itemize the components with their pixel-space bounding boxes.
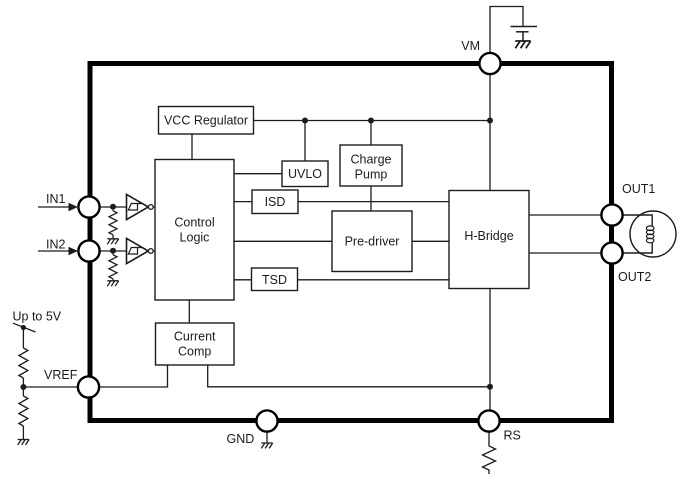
resistor R-VREF1 — [19, 348, 28, 378]
svg-text:RS: RS — [504, 429, 521, 443]
capacitor C-VM — [511, 27, 538, 42]
svg-text:Control: Control — [174, 216, 214, 230]
ground under R-IN2 — [107, 281, 118, 286]
wire bus to UVLO — [304, 121, 306, 162]
svg-text:Current: Current — [174, 330, 216, 344]
GND pin ground stub — [266, 432, 268, 444]
block H-Bridge — [449, 191, 529, 289]
wire IN1 to schmitt — [100, 206, 127, 208]
wire VM to H-Bridge — [489, 74, 491, 191]
svg-text:IN2: IN2 — [46, 238, 66, 252]
wire VCC Regulator to Control Logic — [191, 134, 193, 160]
resistor R-RS — [483, 432, 496, 474]
wire H-Bridge to OUT2 — [529, 252, 602, 254]
wire Charge Pump to Pre-driver — [370, 186, 372, 211]
svg-text:Charge: Charge — [351, 153, 392, 167]
svg-text:Pump: Pump — [355, 168, 388, 182]
schmitt buffer U-IN1 — [127, 194, 154, 219]
wire supply to R1 — [22, 328, 24, 349]
svg-text:VCC Regulator: VCC Regulator — [164, 114, 248, 128]
wire Control Logic to Current Comp — [188, 300, 190, 323]
wire Current Comp to RS node — [208, 365, 490, 387]
IN2 arrowhead — [69, 247, 79, 255]
wire Control Logic to TSD — [234, 279, 252, 281]
VM external wire — [490, 7, 523, 54]
wire ISD to H-Bridge — [298, 201, 449, 203]
node junction on bus at Charge Pump — [368, 118, 374, 124]
svg-text:VREF: VREF — [44, 368, 78, 382]
wire Control Logic to Pre-driver — [234, 240, 332, 242]
svg-text:Comp: Comp — [178, 345, 211, 359]
node IN2 junction — [110, 248, 116, 254]
block TSD — [252, 268, 298, 291]
block ISD — [252, 190, 298, 214]
pin IN1 — [78, 196, 99, 217]
ground of capacitor — [515, 41, 530, 48]
wire R1 to node — [22, 378, 24, 396]
wire IN2 lead — [38, 250, 70, 252]
wire IN2 to schmitt — [100, 250, 127, 252]
VREF divider: supply stroke — [13, 323, 36, 332]
node VREF divider — [20, 384, 26, 390]
wire VREF to Current Comp — [99, 365, 168, 387]
wire node to VREF pin — [23, 386, 78, 388]
wire schmitt1 to Control Logic — [153, 206, 155, 208]
svg-text:ISD: ISD — [265, 195, 286, 209]
ground under R-IN1 — [107, 239, 118, 244]
pin RS — [478, 410, 499, 431]
node junction on bus at UVLO — [302, 118, 308, 124]
pin GND — [256, 410, 277, 431]
wire IN1 lead — [38, 206, 70, 208]
wire H-Bridge to RS — [489, 289, 491, 411]
resistor R-IN1 — [109, 210, 117, 239]
resistor R-IN2 — [109, 254, 117, 281]
wire TSD to H-Bridge — [298, 279, 450, 281]
pin IN2 — [78, 240, 99, 261]
svg-text:OUT1: OUT1 — [622, 182, 655, 196]
block Charge Pump — [340, 145, 402, 186]
svg-text:GND: GND — [227, 432, 255, 446]
block Pre-driver — [332, 211, 412, 272]
node IN1 junction — [110, 204, 116, 210]
svg-text:Pre-driver: Pre-driver — [345, 235, 400, 249]
block UVLO — [282, 161, 328, 187]
svg-text:VM: VM — [461, 39, 480, 53]
svg-text:Up to 5V: Up to 5V — [13, 310, 62, 324]
node junction bus at VM line — [487, 118, 493, 124]
svg-text:Logic: Logic — [180, 231, 210, 245]
pin VREF — [78, 376, 99, 397]
block Control Logic — [155, 160, 234, 301]
svg-text:H-Bridge: H-Bridge — [464, 229, 513, 243]
pin OUT1 — [601, 204, 622, 225]
wire VCC Regulator output bus — [254, 120, 491, 122]
node supply dot — [21, 325, 26, 330]
wire R2 to ground — [22, 426, 24, 440]
wire Pre-driver to H-Bridge — [412, 240, 449, 242]
IN1 arrowhead — [69, 203, 79, 211]
motor M1 — [623, 211, 677, 257]
svg-text:UVLO: UVLO — [288, 167, 322, 181]
resistor R-VREF2 — [19, 396, 28, 426]
pin VM — [479, 53, 500, 74]
wire Control Logic to ISD — [234, 201, 252, 203]
svg-text:TSD: TSD — [262, 273, 287, 287]
pin OUT2 — [601, 242, 622, 263]
wire H-Bridge to OUT1 — [529, 214, 602, 216]
block Current Comp — [156, 323, 235, 365]
block VCC Regulator — [159, 107, 254, 135]
wire Control Logic to UVLO — [234, 173, 282, 175]
svg-text:OUT2: OUT2 — [618, 270, 651, 284]
node junction RS — [487, 384, 493, 390]
IC outline box — [90, 64, 612, 421]
svg-text:IN1: IN1 — [46, 192, 66, 206]
ground under GND pin — [261, 443, 272, 448]
ground under divider — [18, 440, 29, 445]
wire schmitt2 to Control Logic — [153, 250, 155, 252]
wire bus to Charge Pump — [370, 121, 372, 146]
schmitt buffer U-IN2 — [127, 238, 154, 263]
